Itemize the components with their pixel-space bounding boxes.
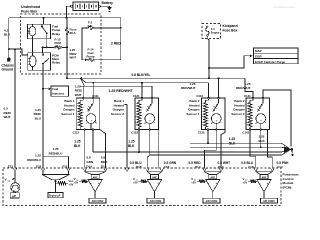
svg-text:0.5 BLU: 0.5 BLU: [130, 161, 143, 165]
svg-text:AMP: AMP: [210, 176, 215, 179]
label 0.5 GRN: [164, 161, 177, 165]
svg-text:1.25 RED/WHT: 1.25 RED/WHT: [109, 89, 134, 93]
label 1.25 RED/BLU vertical: [34, 108, 42, 120]
svg-text:D10: D10: [195, 165, 201, 169]
label 0.5 BLU: [130, 161, 143, 165]
wire S2 BLU D18: [147, 130, 150, 169]
svg-text:Engine: Engine: [211, 30, 220, 34]
bracket E16/F16 merge: [42, 172, 70, 180]
svg-text:1.25: 1.25: [35, 154, 41, 158]
PCM pin F16: [67, 169, 70, 172]
oxygen sensor box S2: [135, 98, 159, 130]
connector label C122 bottom S2: [131, 131, 138, 135]
label 0.8 RED D16: [101, 155, 108, 168]
svg-text:C122: C122: [131, 131, 138, 135]
label 1.25 BLK S2: [128, 140, 135, 149]
label PCM Main Relay: [52, 53, 60, 64]
svg-text:C14: C14: [277, 165, 283, 169]
underhood fuse box (dashed): [21, 14, 102, 74]
transistor Q1: [11, 172, 20, 192]
ground chassis: [7, 58, 11, 62]
svg-text:EVAP Canister Purge: EVAP Canister Purge: [255, 60, 285, 64]
svg-text:BLK: BLK: [74, 144, 81, 148]
svg-text:D19: D19: [218, 165, 224, 169]
PCM box (dashed): [3, 168, 281, 206]
svg-text:80 A: 80 A: [70, 31, 77, 35]
label Kickpanel Fuse Box: [223, 24, 239, 32]
svg-text:+: +: [216, 181, 218, 185]
label Vcc (driver): [5, 177, 15, 182]
svg-text:+5V: +5V: [191, 181, 196, 185]
A/D converter 1: [89, 198, 106, 203]
label 1.25 RED/WHT (col4): [236, 82, 251, 90]
op-amp U1 (S1): [74, 172, 106, 199]
label 1.25 RED/BLU (F16): [49, 147, 64, 155]
label MAP: [255, 49, 262, 53]
label Bank sensor S4: [231, 99, 244, 116]
merge line 1 (S3 ground): [190, 142, 281, 144]
wire S2 BLK to merge: [138, 130, 140, 154]
svg-text:Relay: Relay: [52, 61, 60, 65]
svg-text:BLK: BLK: [259, 139, 266, 143]
merge line 3 (S1 ground): [93, 151, 281, 153]
svg-text:BLK: BLK: [128, 144, 135, 148]
svg-text:C16: C16: [164, 165, 170, 169]
wire 0.8 BLK/YEL to PCM: [125, 105, 128, 169]
relay K1 Fuel Pump Relay box: [27, 24, 50, 39]
svg-text:C142: C142: [242, 131, 249, 135]
svg-text:Relay: Relay: [52, 32, 60, 36]
PCM pin C14: [271, 169, 274, 172]
svg-text:Underhood: Underhood: [21, 5, 40, 9]
label 0.8 BLK/YEL: [132, 73, 151, 77]
merge line 2 (S4 ground): [190, 146, 281, 148]
svg-text:Ground: Ground: [2, 68, 14, 72]
PCM pin D10: [203, 169, 206, 172]
junction EGR branch: [208, 67, 210, 69]
wire S3 WHT D19: [221, 130, 225, 169]
svg-text:-: -: [208, 181, 209, 185]
relay K1 coil: [27, 24, 36, 39]
svg-text:RED/WHT: RED/WHT: [181, 86, 196, 90]
wire S3 topR to bus A: [218, 78, 220, 98]
kickpanel fuse box (dashed): [202, 24, 221, 39]
PCM pin C16: [160, 169, 163, 172]
svg-text:Pump: Pump: [86, 55, 94, 59]
svg-text:BLK: BLK: [4, 33, 11, 37]
connector label C111 top S1: [92, 94, 99, 98]
svg-text:0.5 RED: 0.5 RED: [188, 161, 201, 165]
svg-text:-: -: [150, 181, 151, 185]
svg-text:+: +: [267, 181, 269, 185]
funnel arrowhead: [284, 146, 291, 152]
fuse F-15 PCM 30A: [54, 46, 62, 49]
svg-text:C131: C131: [196, 94, 203, 98]
wire S2 topL to bus B: [141, 83, 143, 98]
box Fuel Injectors: [51, 86, 69, 96]
label F16: [62, 164, 67, 168]
label D10: [195, 165, 201, 169]
svg-text:Engine μP: Engine μP: [49, 196, 61, 198]
wire bracket node down: [55, 180, 57, 193]
junction bus A kickpanel: [208, 77, 210, 79]
svg-text:-: -: [90, 181, 91, 185]
svg-text:Sensor 1: Sensor 1: [186, 112, 199, 116]
wire S4 PNK C14: [268, 130, 273, 169]
wire S2 topR to bus C end: [151, 86, 153, 98]
bus C fan: [80, 78, 84, 86]
junction F-2 tap: [120, 27, 122, 29]
svg-text:A/D CONV: A/D CONV: [92, 200, 104, 203]
label F-2 C/B: [88, 21, 93, 29]
svg-text:AMP: AMP: [262, 176, 267, 179]
wire S3 topL from bus B end: [208, 83, 210, 98]
junction bus B col1R: [92, 82, 94, 84]
wire kickpanel down: [207, 36, 209, 78]
label 1.25 RED/WHT (bus): [109, 89, 134, 93]
A/D converter 4: [261, 198, 278, 203]
box Engine uP: [48, 193, 63, 198]
wire S3 BLK to merge: [207, 130, 209, 144]
A/D converter 3: [203, 198, 220, 203]
junction bus A col3R: [218, 77, 220, 79]
fuse F-4 Engine: [206, 26, 209, 36]
label F-14 Fuel Pump: [86, 48, 94, 59]
label D19: [218, 165, 224, 169]
bus A continuation arrow: [79, 77, 82, 80]
label D18: [136, 165, 142, 169]
wire S4 BLK to merge: [260, 130, 262, 148]
relay K1 switch: [41, 24, 48, 39]
svg-text:+: +: [98, 181, 100, 185]
label Bank sensor S1: [61, 99, 74, 116]
label 1.25 BLK S4: [259, 135, 266, 144]
svg-text:WHT: WHT: [70, 55, 77, 59]
wire E16/F16 split: [43, 156, 69, 168]
watermark: [273, 5, 295, 9]
svg-text:Sensor 1: Sensor 1: [61, 112, 74, 116]
label 1.25 RED/WHT (col2): [181, 82, 196, 90]
svg-text:GRN: GRN: [86, 160, 94, 164]
wire S1 RED D16: [100, 130, 106, 169]
label 0.5 RED/WHT: [4, 107, 12, 120]
junction bus A fuse wire: [66, 77, 68, 79]
relay K2 switch: [42, 47, 49, 70]
label 2 RED: [111, 42, 121, 46]
label Bank sensor S3: [186, 99, 199, 116]
connector label C141 top S4: [244, 94, 251, 98]
pins bottom S4: [249, 129, 261, 131]
funnel tail: [291, 150, 293, 156]
svg-text:RED: RED: [101, 160, 108, 164]
bus A 0.8 BLK/YEL: [67, 77, 245, 79]
connector label C112 bottom S1: [73, 131, 80, 135]
svg-text:A/D CONV: A/D CONV: [150, 200, 162, 203]
junction bus B col2L: [141, 82, 143, 84]
junction relay K1 out: [46, 46, 48, 48]
label 0.5 BLU C18: [241, 161, 254, 169]
junction fuel injector tap: [42, 88, 44, 90]
A/D converter 2: [147, 198, 164, 203]
svg-text:F-4: F-4: [211, 27, 215, 31]
fuse F 80A: [65, 28, 68, 35]
svg-text:(PCM): (PCM): [283, 185, 292, 189]
box MAP/EGR/EVAP: [254, 48, 299, 64]
funnel converge: [281, 143, 289, 155]
wire fuse 80A riser: [66, 18, 69, 79]
svg-text:AMP: AMP: [93, 176, 98, 179]
box uP: [10, 193, 19, 198]
label Powertrain Control Module PCM: [283, 173, 299, 190]
junction chassis branch: [8, 48, 10, 50]
ground G1 (battery): [107, 7, 111, 11]
battery label: [102, 1, 114, 5]
op-amp U4 (S4): [243, 172, 273, 199]
svg-text:MAP: MAP: [255, 49, 262, 53]
svg-text:Injectors: Injectors: [52, 91, 64, 95]
wire S1 GRN D14: [84, 130, 86, 169]
label 0.5 RED: [188, 161, 201, 165]
svg-text:RED/BLU: RED/BLU: [49, 151, 64, 155]
PCM pin E16: [41, 169, 44, 172]
connector label C132 bottom S3: [198, 131, 205, 135]
svg-text:+5V: +5V: [74, 181, 79, 185]
oxygen sensor box S1: [76, 98, 100, 130]
wire node to resistor: [56, 182, 58, 184]
svg-text:RED/BLU: RED/BLU: [27, 158, 42, 162]
svg-text:0.8: 0.8: [101, 155, 106, 159]
PCM pin C18: [254, 169, 257, 172]
pins top S2: [141, 97, 153, 99]
svg-text:C/B: C/B: [88, 24, 93, 28]
svg-text:C132: C132: [198, 131, 205, 135]
fuse F-2: [87, 26, 94, 29]
svg-text:Sensor 2: Sensor 2: [111, 112, 124, 116]
wire F-2 branch: [93, 27, 121, 29]
label Chassis Ground: [2, 63, 14, 71]
svg-text:RED/WHT: RED/WHT: [236, 86, 251, 90]
svg-text:0.5 GRN: 0.5 GRN: [164, 161, 177, 165]
wire S1 topL to bus C: [82, 86, 84, 98]
wire chassis to relay K2 coil: [9, 49, 28, 55]
svg-text:2 RED: 2 RED: [111, 42, 121, 46]
wire relay K1 feed: [42, 18, 44, 24]
relay K2 coil: [28, 53, 36, 71]
PCM pin D18: [146, 169, 149, 172]
label E13: [8, 164, 14, 168]
wire F-2 to F-14 loop: [82, 28, 87, 60]
svg-text:+: +: [157, 181, 159, 185]
wire F-15 link: [43, 46, 67, 48]
connector label C142 bottom S4: [242, 131, 249, 135]
label F-15 PCM 30 A: [55, 37, 62, 48]
svg-text:AMP: AMP: [152, 176, 157, 179]
PCM pin D16: [104, 169, 107, 172]
svg-text:EGR: EGR: [255, 55, 262, 59]
wire battery to ground: [100, 6, 110, 7]
pins bottom S3: [207, 129, 217, 131]
wire 0.5 RED/WHT (E13): [14, 48, 16, 168]
op-amp U2 (S2): [133, 172, 162, 199]
merge line 4 (S2 ground): [150, 154, 282, 156]
svg-text:0.5 PNK: 0.5 PNK: [277, 161, 290, 165]
connector label C131 top S3: [196, 94, 203, 98]
svg-text:A/D CONV: A/D CONV: [263, 200, 275, 203]
label Underhood Fuse Box: [21, 5, 40, 13]
pins top S1: [82, 97, 94, 99]
svg-text:BLU: BLU: [35, 116, 42, 120]
bus B fan: [81, 78, 209, 83]
label Fuel Pump Relay: [52, 25, 61, 36]
svg-text:C112: C112: [73, 131, 80, 135]
pins top S3: [208, 97, 220, 99]
label 1.25 RED/WHT (injector wire): [75, 85, 82, 97]
wire to EGR box: [209, 56, 250, 68]
funnel dot: [291, 148, 294, 151]
junction F-15/fuse80: [66, 46, 68, 48]
label Fuse 80 A: [70, 28, 77, 36]
battery B1: [70, 2, 100, 11]
op-amp U3 (S3): [191, 172, 221, 199]
label EGR: [255, 55, 262, 59]
wire S4 topR loop to funnel: [263, 90, 291, 146]
svg-text:1.25: 1.25: [229, 137, 235, 141]
wire S4 topL from bus A end: [245, 78, 253, 98]
label 0.8 GRN D14: [86, 155, 94, 168]
wire relay coil link: [31, 39, 33, 53]
svg-text:Fuse Box: Fuse Box: [223, 28, 238, 32]
svg-text:0.8 BLK/YEL: 0.8 BLK/YEL: [132, 73, 151, 77]
wire battery feed: [9, 6, 121, 58]
resistor R2: [56, 182, 69, 185]
oxygen sensor box S3: [202, 98, 226, 130]
svg-text:C121: C121: [133, 94, 140, 98]
wire S3 RED D10: [205, 130, 217, 169]
label F-4 Engine: [211, 27, 220, 34]
pins top S4: [252, 97, 264, 99]
label 1.25 BLK S1: [74, 140, 81, 149]
svg-text:D18: D18: [136, 165, 142, 169]
svg-text:+5V: +5V: [243, 181, 248, 185]
junction feed/relay K1: [43, 17, 45, 19]
wire S1 BLK to merge: [92, 130, 94, 153]
pins bottom S1: [84, 129, 94, 131]
wire S1 topR to bus B: [92, 83, 94, 98]
svg-text:μP: μP: [12, 194, 16, 198]
svg-text:Fuse Box: Fuse Box: [21, 10, 37, 14]
svg-text:C141: C141: [244, 94, 251, 98]
arrow into fuel injectors: [48, 87, 50, 90]
wire S2 GRN C16: [158, 130, 160, 169]
fuse F-14 Fuel Pump: [88, 58, 95, 61]
pins bottom S2: [138, 129, 150, 131]
svg-text:WHT: WHT: [4, 115, 11, 119]
bus C run: [83, 85, 152, 87]
oxygen sensor box S4: [246, 98, 270, 130]
relay K2 PCM Main Relay box: [28, 53, 51, 71]
svg-text:a Folksprocess: a Folksprocess: [273, 5, 295, 9]
svg-text:-: -: [259, 181, 260, 185]
junction relay K2 tap: [42, 46, 44, 48]
wire S4 BLU C18: [250, 130, 256, 169]
label E16: [36, 164, 42, 168]
svg-text:0.5 WHT: 0.5 WHT: [218, 161, 231, 165]
svg-text:Sensor 2: Sensor 2: [231, 112, 244, 116]
wire to fuel injectors: [43, 88, 48, 90]
arrow into F-14: [85, 58, 87, 61]
svg-text:1.25: 1.25: [259, 135, 265, 139]
svg-text:0.5 BLU: 0.5 BLU: [241, 161, 254, 165]
svg-text:WHT: WHT: [75, 93, 82, 97]
label 0.5 PNK C14: [277, 161, 290, 169]
label 4.2 BLK: [4, 29, 11, 37]
svg-text:0.8: 0.8: [86, 155, 91, 159]
PCM pin E13: [13, 169, 16, 172]
svg-text:C18: C18: [248, 165, 254, 169]
connector label C121 top S2: [133, 94, 140, 98]
label Bank sensor S2: [111, 99, 124, 116]
label 1.25 BLK S3: [229, 137, 236, 146]
label 1.25 RED/WHT (fuse box): [70, 48, 77, 59]
PCM pin D14: [83, 169, 86, 172]
label EVAP Canister Purge: [255, 60, 285, 64]
svg-text:+5V: +5V: [133, 181, 138, 185]
svg-text:A/D CONV: A/D CONV: [206, 200, 218, 203]
label Vcc +5V (R2): [69, 179, 74, 186]
wire relay K1 out: [46, 39, 48, 48]
label 0.5 WHT: [218, 161, 231, 165]
junction feed/fuse 80A: [66, 17, 68, 19]
bracket node dot: [54, 180, 56, 182]
wire Q1 to uP: [12, 189, 14, 193]
wire relay K2 output 1.25 RED/BLU: [42, 70, 44, 168]
label 1.25 RED/BLU (E16): [27, 154, 42, 163]
label C16: [164, 165, 170, 169]
wire 2 RED down: [94, 28, 121, 60]
PCM pin BLKYEL: [125, 169, 128, 172]
arrow into EGR: [250, 54, 253, 57]
svg-text:1.25: 1.25: [128, 140, 134, 144]
svg-text:1.25: 1.25: [74, 140, 80, 144]
PCM pin D19: [219, 169, 222, 172]
svg-text:30 A: 30 A: [55, 44, 62, 48]
svg-text:Battery: Battery: [102, 1, 114, 5]
